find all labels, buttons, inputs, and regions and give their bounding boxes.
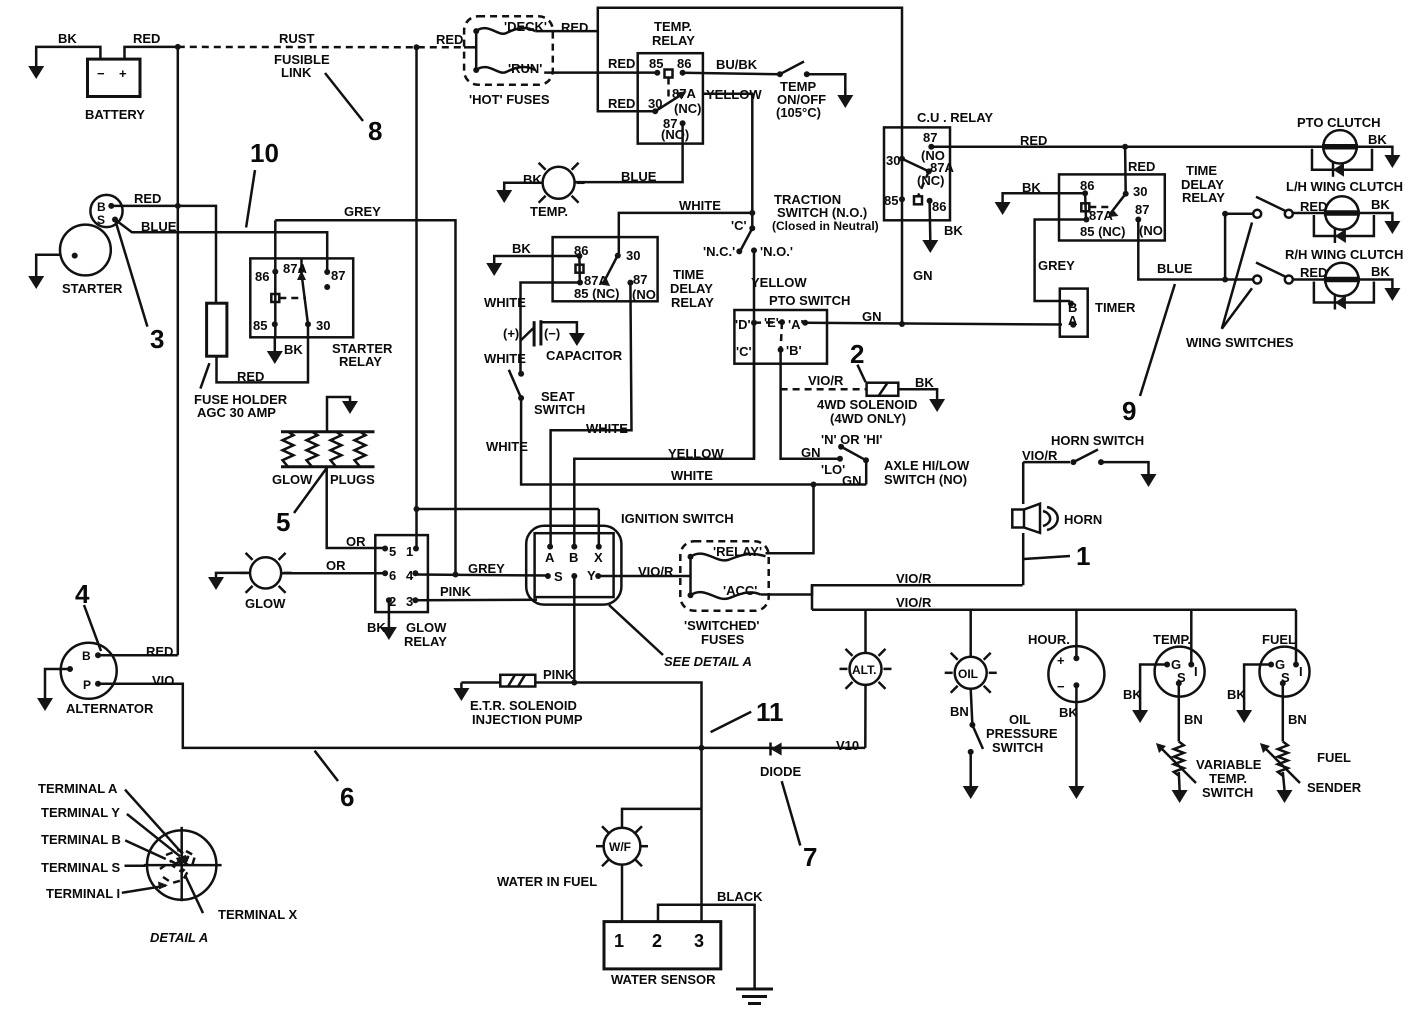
svg-text:BK: BK [1371,197,1390,212]
svg-text:BK: BK [1022,180,1041,195]
svg-text:WHITE: WHITE [484,295,526,310]
svg-text:OR: OR [326,558,346,573]
svg-text:86: 86 [1080,178,1094,193]
svg-text:GREY: GREY [1038,258,1075,273]
svg-text:TERMINAL S: TERMINAL S [41,860,121,875]
svg-text:TEMP.: TEMP. [654,19,692,34]
svg-text:W/F: W/F [609,840,631,854]
svg-text:BN: BN [950,704,969,719]
svg-text:A: A [545,550,555,565]
svg-text:WATER SENSOR: WATER SENSOR [611,972,716,987]
svg-text:TERMINAL Y: TERMINAL Y [41,805,120,820]
svg-text:'RELAY': 'RELAY' [713,544,762,559]
svg-text:'ACC': 'ACC' [723,583,757,598]
svg-text:CAPACITOR: CAPACITOR [546,348,623,363]
svg-text:BK: BK [1227,687,1246,702]
svg-text:WING SWITCHES: WING SWITCHES [1186,335,1294,350]
svg-text:RED: RED [237,369,264,384]
svg-text:S: S [1281,670,1290,685]
svg-text:7: 7 [803,842,817,872]
svg-text:BLUE: BLUE [621,169,657,184]
svg-text:RED: RED [608,56,635,71]
svg-text:VIO/R: VIO/R [808,373,844,388]
svg-text:'A': 'A' [788,317,804,332]
svg-text:I: I [1299,664,1303,679]
svg-text:BK: BK [1123,687,1142,702]
svg-text:87: 87 [923,130,937,145]
svg-text:RED: RED [133,31,160,46]
svg-text:BK: BK [284,342,303,357]
svg-text:87: 87 [1135,202,1149,217]
svg-text:C.U . RELAY: C.U . RELAY [917,110,993,125]
svg-text:VIO: VIO [152,673,174,688]
svg-text:9: 9 [1122,396,1136,426]
svg-text:BATTERY: BATTERY [85,107,145,122]
svg-text:RELAY: RELAY [1182,190,1225,205]
svg-text:'C': 'C' [736,344,752,359]
svg-text:'N' OR 'HI': 'N' OR 'HI' [821,432,882,447]
svg-text:ALTERNATOR: ALTERNATOR [66,701,154,716]
svg-text:4: 4 [75,579,90,609]
svg-text:PRESSURE: PRESSURE [986,726,1058,741]
svg-text:OIL: OIL [1009,712,1031,727]
svg-text:1: 1 [614,931,624,951]
svg-text:'SWITCHED': 'SWITCHED' [684,618,760,633]
svg-text:BK: BK [1368,132,1387,147]
svg-text:'RUN': 'RUN' [508,61,542,76]
svg-text:TIME: TIME [673,267,704,282]
svg-text:BLUE: BLUE [1157,261,1193,276]
svg-text:2: 2 [652,931,662,951]
svg-text:SWITCH (N.O.): SWITCH (N.O.) [777,205,867,220]
svg-text:BU/BK: BU/BK [716,57,758,72]
svg-text:GLOW: GLOW [245,596,286,611]
svg-text:(+): (+) [503,326,519,341]
svg-text:BK: BK [915,375,934,390]
svg-text:SEE DETAIL A: SEE DETAIL A [664,654,752,669]
svg-text:WHITE: WHITE [486,439,528,454]
svg-text:TERMINAL X: TERMINAL X [218,907,298,922]
svg-text:VIO/R: VIO/R [896,571,932,586]
svg-text:TERMINAL B: TERMINAL B [41,832,121,847]
svg-text:AXLE HI/LOW: AXLE HI/LOW [884,458,970,473]
svg-text:RELAY: RELAY [339,354,382,369]
svg-text:DIODE: DIODE [760,764,802,779]
svg-text:+: + [1057,653,1065,668]
svg-text:30: 30 [316,318,330,333]
svg-text:(NC): (NC) [674,101,701,116]
svg-text:E.T.R. SOLENOID: E.T.R. SOLENOID [470,698,577,713]
svg-text:3: 3 [694,931,704,951]
svg-text:RELAY: RELAY [652,33,695,48]
svg-text:FUEL: FUEL [1262,632,1296,647]
svg-text:S: S [1177,670,1186,685]
svg-text:85: 85 [649,56,663,71]
svg-text:TEMP.: TEMP. [530,204,568,219]
svg-text:'C': 'C' [731,218,747,233]
svg-text:RED: RED [1128,159,1155,174]
svg-text:(NO): (NO) [661,127,689,142]
svg-text:TERMINAL A: TERMINAL A [38,781,118,796]
svg-text:R/H WING CLUTCH: R/H WING CLUTCH [1285,247,1403,262]
svg-text:WHITE: WHITE [586,421,628,436]
svg-text:S: S [554,569,563,584]
svg-text:STARTER: STARTER [62,281,123,296]
svg-text:RED: RED [134,191,161,206]
svg-text:SWITCH: SWITCH [1202,785,1253,800]
svg-text:−: − [1057,679,1065,694]
svg-text:'HOT' FUSES: 'HOT' FUSES [469,92,550,107]
svg-text:RED: RED [436,32,463,47]
svg-text:YELLOW: YELLOW [668,446,724,461]
svg-text:WHITE: WHITE [484,351,526,366]
svg-text:RED: RED [1020,133,1047,148]
svg-text:86: 86 [677,56,691,71]
svg-text:6: 6 [340,782,354,812]
svg-text:8: 8 [368,116,382,146]
svg-text:GN: GN [842,473,862,488]
svg-text:85 (NC): 85 (NC) [574,286,620,301]
svg-text:10: 10 [250,138,279,168]
svg-text:SENDER: SENDER [1307,780,1362,795]
svg-text:IGNITION SWITCH: IGNITION SWITCH [621,511,734,526]
svg-text:1: 1 [1076,541,1090,571]
svg-text:4: 4 [406,568,414,583]
svg-text:PTO CLUTCH: PTO CLUTCH [1297,115,1381,130]
svg-text:'N.C.': 'N.C.' [703,244,735,259]
svg-text:S: S [97,213,105,227]
svg-text:4WD SOLENOID: 4WD SOLENOID [817,397,917,412]
svg-text:3: 3 [150,324,164,354]
svg-text:VIO/R: VIO/R [1022,448,1058,463]
svg-text:BK: BK [58,31,77,46]
svg-text:FUSES: FUSES [701,632,745,647]
svg-text:SWITCH (NO): SWITCH (NO) [884,472,967,487]
svg-text:BN: BN [1184,712,1203,727]
svg-text:85 (NC): 85 (NC) [1080,224,1126,239]
svg-text:GN: GN [801,445,821,460]
svg-text:GLOW: GLOW [406,620,447,635]
svg-text:P: P [83,678,91,692]
svg-text:DETAIL A: DETAIL A [150,930,208,945]
svg-text:BK: BK [512,241,531,256]
svg-text:(4WD ONLY): (4WD ONLY) [830,411,906,426]
svg-text:11: 11 [756,697,784,727]
svg-text:TIME: TIME [1186,163,1217,178]
svg-text:OIL: OIL [958,667,978,681]
svg-text:DELAY: DELAY [670,281,713,296]
svg-text:BK: BK [523,172,542,187]
svg-text:HORN: HORN [1064,512,1102,527]
svg-text:BN: BN [1288,712,1307,727]
svg-text:RELAY: RELAY [671,295,714,310]
svg-text:87A: 87A [283,261,307,276]
svg-text:RED: RED [561,20,588,35]
svg-text:GN: GN [913,268,933,283]
svg-text:GREY: GREY [344,204,381,219]
svg-text:V10: V10 [836,738,859,753]
svg-text:INJECTION PUMP: INJECTION PUMP [472,712,583,727]
svg-text:L/H WING CLUTCH: L/H WING CLUTCH [1286,179,1403,194]
svg-text:85: 85 [884,193,898,208]
svg-text:BLACK: BLACK [717,889,763,904]
svg-text:85: 85 [253,318,267,333]
svg-text:LINK: LINK [281,65,312,80]
svg-text:TERMINAL I: TERMINAL I [46,886,120,901]
svg-text:GLOW: GLOW [272,472,313,487]
svg-text:6: 6 [389,568,396,583]
svg-text:87: 87 [331,268,345,283]
svg-text:3: 3 [406,594,413,609]
svg-text:PTO SWITCH: PTO SWITCH [769,293,850,308]
svg-text:BK: BK [1059,705,1078,720]
svg-text:86: 86 [932,199,946,214]
svg-text:RELAY: RELAY [404,634,447,649]
svg-text:YELLOW: YELLOW [751,275,807,290]
svg-text:RED: RED [146,644,173,659]
svg-text:Y: Y [587,568,596,583]
svg-text:RUST: RUST [279,31,314,46]
svg-text:30: 30 [1133,184,1147,199]
svg-text:FUEL: FUEL [1317,750,1351,765]
svg-text:TEMP.: TEMP. [1209,771,1247,786]
svg-text:OR: OR [346,534,366,549]
svg-text:SWITCH: SWITCH [992,740,1043,755]
svg-text:5: 5 [389,544,396,559]
svg-text:(NO: (NO [632,287,656,302]
svg-text:30: 30 [886,153,900,168]
svg-text:5: 5 [276,507,290,537]
svg-text:BK: BK [367,620,386,635]
svg-text:'N.O.': 'N.O.' [760,244,793,259]
svg-text:B: B [569,550,578,565]
svg-text:−: − [97,66,105,81]
svg-text:'D': 'D' [735,317,751,332]
svg-text:(NO: (NO [1139,223,1163,238]
svg-text:86: 86 [255,269,269,284]
svg-text:HORN SWITCH: HORN SWITCH [1051,433,1144,448]
svg-text:I: I [1194,664,1198,679]
svg-text:(Closed in Neutral): (Closed in Neutral) [772,219,879,233]
svg-text:B: B [82,649,91,663]
svg-text:PINK: PINK [543,667,575,682]
svg-text:1: 1 [406,544,413,559]
svg-text:VARIABLE: VARIABLE [1196,757,1262,772]
svg-text:TIMER: TIMER [1095,300,1136,315]
svg-text:WHITE: WHITE [671,468,713,483]
svg-text:+: + [119,66,127,81]
svg-text:WHITE: WHITE [679,198,721,213]
svg-text:'B': 'B' [786,343,802,358]
svg-text:BK: BK [944,223,963,238]
svg-text:B: B [97,200,106,214]
svg-text:PLUGS: PLUGS [330,472,375,487]
svg-text:SWITCH: SWITCH [534,402,585,417]
svg-text:VIO/R: VIO/R [896,595,932,610]
svg-text:RED: RED [1300,265,1327,280]
svg-text:2: 2 [850,339,864,369]
svg-text:WATER IN FUEL: WATER IN FUEL [497,874,597,889]
svg-text:GN: GN [862,309,882,324]
svg-text:X: X [594,550,603,565]
svg-text:30: 30 [626,248,640,263]
svg-text:PINK: PINK [440,584,472,599]
svg-text:HOUR.: HOUR. [1028,632,1070,647]
svg-text:AGC 30 AMP: AGC 30 AMP [197,405,276,420]
svg-text:(NC): (NC) [917,173,944,188]
svg-text:TEMP.: TEMP. [1153,632,1191,647]
svg-text:A: A [1068,313,1078,328]
svg-text:RED: RED [608,96,635,111]
svg-text:BK: BK [1371,264,1390,279]
svg-text:87: 87 [633,272,647,287]
svg-text:(−): (−) [544,326,560,341]
svg-text:ALT.: ALT. [852,663,876,677]
svg-text:(105°C): (105°C) [776,105,821,120]
